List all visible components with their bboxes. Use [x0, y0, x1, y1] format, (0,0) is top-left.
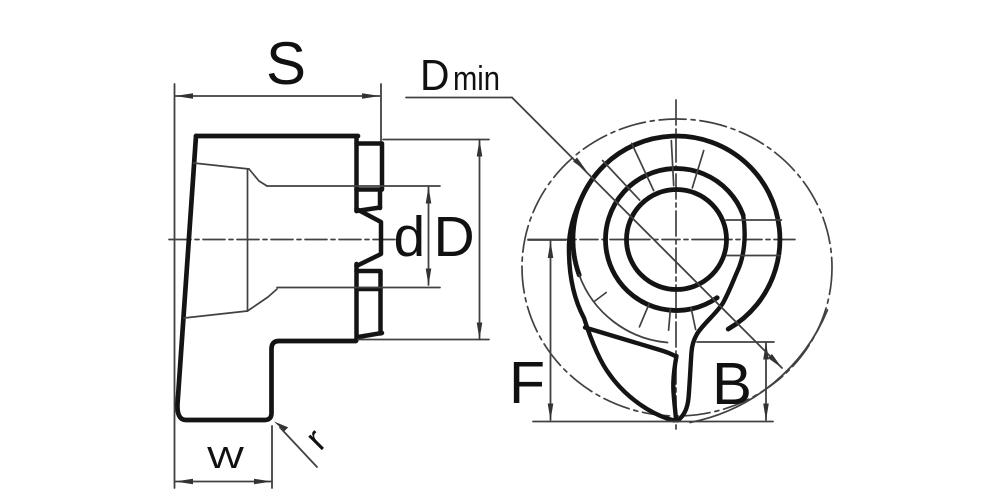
r leader arrow — [274, 422, 288, 432]
middle ring — [605, 169, 743, 311]
left slanted edge and foot — [177, 136, 356, 420]
arrow D down — [477, 323, 483, 340]
F dimension line — [550, 241, 552, 420]
arrow D up — [477, 140, 483, 157]
svg-text:F: F — [509, 350, 545, 416]
piece below clamp — [378, 192, 383, 208]
inner ring — [627, 190, 727, 290]
r leader line — [280, 428, 317, 468]
interior thin line bottom — [184, 311, 248, 318]
Dmin label underline — [406, 97, 512, 99]
blob left edge — [569, 184, 674, 421]
bottom tip line — [533, 421, 773, 423]
body right rail upper — [354, 137, 359, 211]
part outline main body — [196, 134, 358, 139]
D top extension — [383, 139, 489, 141]
dimension S line — [175, 95, 380, 97]
short extension lines right of rings — [726, 219, 782, 221]
interior vertical thin — [247, 169, 249, 311]
svg-text:S: S — [266, 30, 306, 97]
dimension D line — [479, 140, 481, 340]
clamp rectangle top — [357, 144, 383, 190]
dimension W line — [175, 481, 272, 483]
D bottom extension — [358, 339, 489, 341]
svg-text:d: d — [394, 205, 426, 269]
extension line right of S — [380, 84, 382, 143]
arrow S right — [362, 93, 380, 99]
Dmin bore arc solid — [690, 310, 827, 423]
svg-text:min: min — [453, 60, 500, 98]
arrow B up — [763, 343, 769, 360]
outer ring thick arc — [573, 136, 780, 329]
extension line left (S top / W bottom shared) — [174, 84, 176, 488]
vertical centerline — [675, 100, 677, 431]
arrow W left — [175, 479, 193, 485]
thin horizontal d top extension — [267, 185, 440, 187]
tooth right S-curve — [678, 215, 745, 420]
horizontal centerline — [528, 239, 795, 241]
serration spokes upper — [692, 151, 703, 188]
tooth top edge — [585, 328, 676, 357]
leader arrow mid — [573, 158, 587, 172]
thin horizontal d bottom extension — [277, 287, 440, 289]
serration tooth — [357, 209, 382, 266]
svg-text:D: D — [420, 51, 450, 100]
Dmin leader diagonal — [512, 98, 782, 369]
arrow F up — [548, 241, 554, 258]
arrow W right — [254, 479, 272, 485]
svg-text:D: D — [434, 205, 475, 269]
arrow S left — [175, 93, 193, 99]
svg-text:B: B — [712, 351, 752, 417]
interior thin line top — [194, 163, 250, 169]
outer ring hidden thin arc — [579, 275, 667, 343]
arrow d down — [426, 269, 432, 286]
insert slanted bottom — [358, 333, 382, 337]
arrow d up — [426, 187, 432, 204]
W right extension — [271, 426, 273, 488]
centerline of part — [169, 239, 397, 241]
body right rail lower — [354, 264, 359, 340]
dimension d line — [428, 187, 430, 285]
serration spokes lower — [594, 293, 606, 302]
F extension top — [528, 239, 566, 241]
outer blade circle dash-dot — [522, 119, 832, 416]
arrow F down — [548, 404, 554, 421]
B extension top — [697, 341, 774, 343]
leader arrow end — [768, 354, 782, 368]
arrow B down — [763, 404, 769, 421]
svg-text:W: W — [207, 440, 245, 475]
B dimension line — [765, 343, 767, 420]
tooth tip left face — [673, 356, 676, 420]
insert lower block — [357, 271, 381, 334]
